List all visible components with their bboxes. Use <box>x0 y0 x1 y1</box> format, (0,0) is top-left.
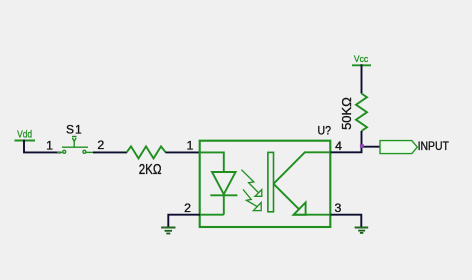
phototransistor inside optocoupler <box>268 152 330 215</box>
svg-text:Vdd: Vdd <box>17 129 32 140</box>
resistor R1 2K <box>127 146 166 158</box>
wire U? pin 3 to ground <box>331 215 362 228</box>
optocoupler U? body box <box>200 141 331 227</box>
LED inside optocoupler <box>200 152 238 214</box>
svg-text:50KΩ: 50KΩ <box>339 97 354 130</box>
svg-text:2: 2 <box>184 201 191 215</box>
junction node dot <box>360 144 364 148</box>
wire Vcc to R2 <box>361 64 363 93</box>
resistor R2 50K vertical <box>356 94 367 132</box>
ground symbol left <box>161 228 175 234</box>
wire R2 to junction <box>361 131 363 147</box>
wire U? pin 4 to junction <box>331 147 362 153</box>
svg-text:U?: U? <box>318 125 332 137</box>
svg-text:1: 1 <box>187 139 194 153</box>
net tag INPUT <box>380 141 417 154</box>
svg-text:1: 1 <box>46 138 53 152</box>
ground symbol right <box>355 228 369 233</box>
svg-text:S1: S1 <box>66 123 82 137</box>
wire Vdd to S1 <box>24 140 61 153</box>
power symbol Vcc <box>352 64 371 66</box>
svg-text:2KΩ: 2KΩ <box>139 162 162 178</box>
svg-text:Vcc: Vcc <box>354 54 368 65</box>
svg-text:2: 2 <box>97 138 104 152</box>
light emission arrow 1 <box>241 170 261 197</box>
power symbol Vdd <box>15 140 36 142</box>
svg-text:4: 4 <box>335 139 342 153</box>
wire junction to INPUT tag <box>362 146 381 148</box>
wire U? pin 2 to ground <box>168 215 200 228</box>
light emission arrow 2 <box>243 189 261 210</box>
switch S1 <box>57 137 96 154</box>
wire S1 to R1 <box>93 151 127 153</box>
svg-text:3: 3 <box>334 201 341 215</box>
wire R1 to U? pin 1 <box>166 151 201 153</box>
svg-text:INPUT: INPUT <box>418 139 450 153</box>
